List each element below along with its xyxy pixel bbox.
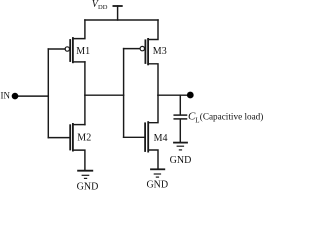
wire: M2 drain stub — [73, 124, 85, 126]
wire: M2 gate lead — [48, 137, 70, 139]
wire: input riser (node IN vertical) — [47, 49, 49, 138]
ground symbol (M2 source) — [78, 171, 92, 179]
label VDD — [92, 0, 108, 11]
wire: rail to M3 source — [148, 20, 158, 40]
transistor M2 (NMOS) — [70, 124, 73, 151]
ground symbol (capacitor) — [174, 143, 187, 150]
wire: IN horizontal lead — [15, 95, 48, 97]
wire: inverter2 output — [158, 94, 190, 96]
VDD power symbol — [113, 6, 121, 20]
wire: M1 drain to M2 drain vertical — [84, 62, 86, 125]
svg-text:IN: IN — [1, 91, 11, 101]
capacitor C_L lead bottom — [179, 120, 181, 142]
wire: M4 gate lead — [124, 136, 146, 138]
label C_L (Capacitive load) — [188, 110, 263, 124]
wire: M2 source to ground — [73, 150, 85, 170]
transistor M1 (PMOS) — [65, 38, 73, 62]
svg-text:DD: DD — [98, 4, 108, 11]
wire: M4 source to ground — [148, 150, 158, 169]
wire: M1 drain stub — [73, 61, 85, 63]
capacitor C_L lead top — [179, 95, 181, 114]
wire: mid riser (inverter2 input vertical) — [123, 49, 125, 138]
svg-text:M1: M1 — [76, 46, 90, 57]
wire: M1 gate lead — [48, 48, 65, 50]
svg-text:GND: GND — [170, 155, 192, 166]
wire: M3 gate lead — [124, 48, 141, 50]
wire: M4 drain stub and vertical — [148, 95, 158, 123]
node IN (input dot) — [12, 93, 19, 100]
svg-text:(Capacitive load): (Capacitive load) — [200, 111, 264, 121]
svg-text:GND: GND — [146, 180, 168, 191]
node OUT (output dot) — [187, 92, 194, 99]
wire: M3 drain stub and vertical — [148, 64, 158, 95]
wire: rail to M1 source — [73, 20, 85, 39]
transistor M4 (NMOS) — [145, 122, 148, 152]
svg-text:GND: GND — [77, 182, 99, 192]
wire: VDD top rail — [85, 19, 158, 21]
ground symbol (M4 source) — [151, 169, 164, 177]
svg-text:M4: M4 — [154, 133, 168, 144]
svg-text:M3: M3 — [153, 46, 167, 57]
wire: inverter1 output to inverter2 input — [85, 94, 124, 96]
capacitor C_L plates — [174, 115, 186, 119]
transistor M3 (PMOS) — [140, 39, 148, 65]
svg-text:M2: M2 — [77, 133, 91, 144]
